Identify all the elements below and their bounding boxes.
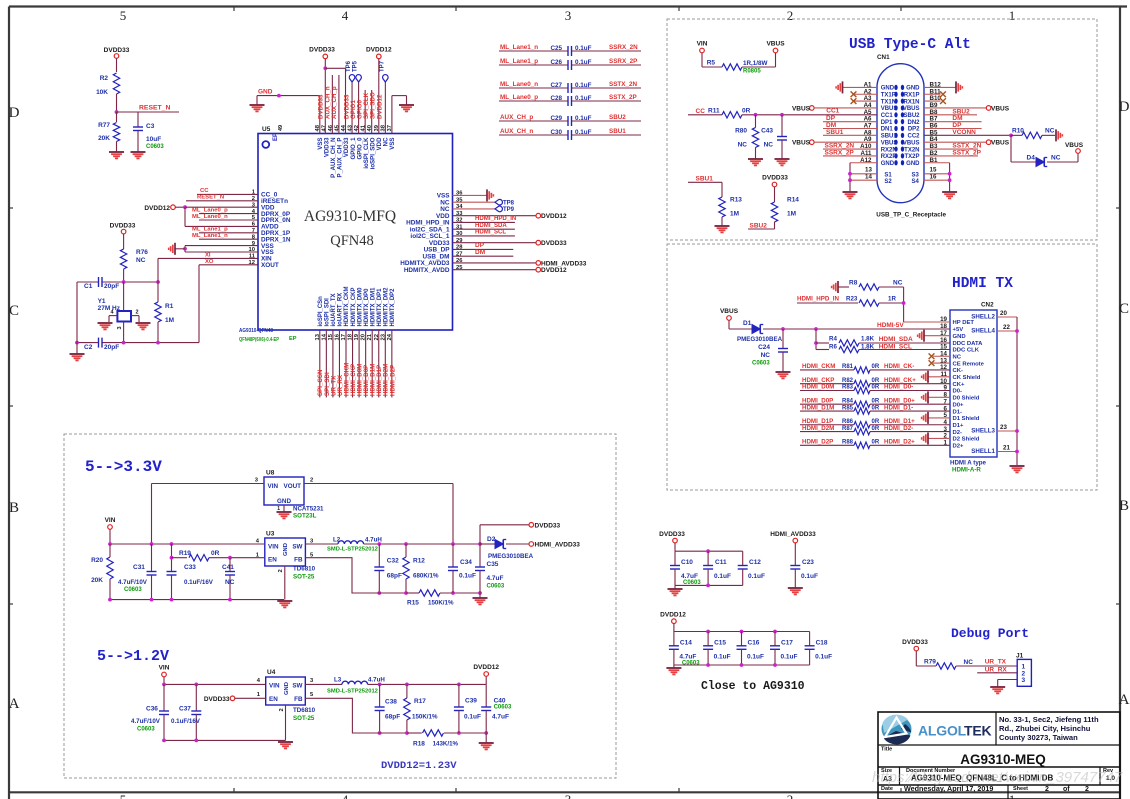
svg-text:FB: FB [294, 696, 303, 703]
svg-text:R80: R80 [735, 128, 747, 135]
svg-text:0.1uF: 0.1uF [815, 654, 832, 661]
svg-text:C16: C16 [748, 640, 760, 647]
svg-text:VIN: VIN [269, 683, 280, 690]
svg-text:SMD-L-STP252012: SMD-L-STP252012 [327, 689, 378, 695]
pin 39 wire DVDD12 [378, 59, 380, 134]
svg-text:VBUS: VBUS [881, 106, 898, 112]
svg-text:R5: R5 [707, 60, 716, 67]
svg-text:RESET_N: RESET_N [197, 195, 224, 201]
pin 24 wire HDMI_D2P [391, 330, 393, 397]
capacitor C27 row [499, 87, 568, 89]
svg-text:143K/1%: 143K/1% [433, 741, 459, 748]
svg-text:ML_Lane0_n: ML_Lane0_n [500, 81, 538, 88]
connector CN1 body [877, 64, 924, 203]
pin 31 wire HDMI_SDA [453, 228, 515, 230]
svg-text:D1 Shield: D1 Shield [953, 416, 980, 422]
svg-text:20K: 20K [91, 577, 103, 584]
U8 pin 2 wire to output [304, 483, 453, 485]
svg-text:SW: SW [292, 683, 302, 690]
svg-text:GND: GND [277, 498, 291, 505]
pin A10 wire SSRX_2N [823, 148, 877, 150]
svg-text:HDMI-A-R: HDMI-A-R [952, 467, 981, 474]
svg-text:ML_Lane1_n: ML_Lane1_n [500, 44, 538, 51]
svg-text:GND: GND [283, 543, 289, 556]
ground (sideways) [955, 81, 957, 93]
capacitor C41 (NC) [229, 558, 231, 572]
pin 23 wire HDMI_D2M [384, 330, 386, 397]
connector CN2 body [950, 310, 997, 457]
svg-text:HDMITX_CKM: HDMITX_CKM [344, 286, 350, 326]
pins 9-10 VSS to ground [185, 245, 258, 247]
regulator U3 body [265, 538, 306, 566]
svg-text:D4: D4 [1027, 155, 1036, 162]
capacitor C2 [98, 338, 100, 348]
svg-text:44: 44 [341, 124, 347, 131]
ground (sideways) [174, 243, 176, 255]
svg-text:DVDD33: DVDD33 [659, 531, 685, 538]
wire to pin 44 [325, 67, 345, 69]
svg-text:1M: 1M [730, 211, 739, 218]
svg-text:CC1: CC1 [826, 108, 839, 115]
svg-text:VBUS: VBUS [903, 140, 920, 146]
pin 5 shield wire to ground [928, 417, 950, 419]
ground [776, 371, 791, 373]
capacitor C17 [774, 632, 776, 646]
wire [123, 234, 125, 249]
svg-text:680K/1%: 680K/1% [413, 573, 439, 580]
svg-text:C0603: C0603 [124, 587, 142, 593]
pin 29 wire to DVDD33 [453, 242, 537, 244]
svg-text:12: 12 [249, 260, 255, 266]
capacitor C28 row [499, 100, 568, 102]
ground [277, 600, 292, 602]
svg-text:45: 45 [334, 124, 340, 131]
pin 4 wire ML_Lane0_p [199, 213, 258, 215]
pin 17 wire HDMI_CKM [345, 330, 347, 397]
pin A12 wire to ground [850, 162, 877, 164]
svg-text:UR_TX: UR_TX [985, 659, 1007, 666]
ground (sideways) [923, 330, 925, 342]
svg-text:TP6: TP6 [346, 60, 352, 72]
svg-text:SBU2: SBU2 [750, 222, 768, 229]
svg-text:0R: 0R [872, 419, 880, 425]
svg-text:TX1N: TX1N [881, 99, 896, 105]
ground [278, 741, 293, 743]
svg-text:HDMI_CK-: HDMI_CK- [884, 363, 914, 370]
svg-text:20K: 20K [98, 135, 110, 142]
svg-text:R15: R15 [407, 600, 419, 607]
connector J1 body [1017, 659, 1031, 686]
wire node C2 row [77, 342, 99, 344]
svg-text:VIN: VIN [105, 517, 116, 524]
svg-text:C12: C12 [749, 559, 761, 566]
svg-text:NC: NC [738, 142, 748, 149]
svg-text:SW: SW [292, 544, 302, 551]
power section dashed box [64, 434, 616, 778]
svg-text:AG9310-QFN48: AG9310-QFN48 [239, 328, 273, 334]
svg-text:HDMITX_AVDD: HDMITX_AVDD [404, 267, 450, 274]
svg-text:QFN48: QFN48 [330, 233, 374, 249]
svg-text:C32: C32 [387, 558, 399, 565]
pin A9 wire to VBUS [810, 140, 815, 145]
pin 34 wire + test point TP9 [453, 208, 496, 210]
pin 40 wire SPI_SDO [371, 90, 373, 134]
svg-text:0.1uF: 0.1uF [464, 714, 481, 721]
svg-text:SHELL2: SHELL2 [971, 314, 995, 321]
power flag VBUS (R5) [773, 48, 778, 53]
svg-text:RX1N: RX1N [903, 99, 919, 105]
svg-text:23: 23 [1000, 424, 1007, 431]
regulator U8 body [264, 477, 304, 505]
svg-text:SBU1: SBU1 [826, 129, 844, 136]
svg-text:R12: R12 [413, 558, 425, 565]
svg-text:D2-: D2- [953, 430, 963, 436]
capacitor C3 [137, 112, 139, 127]
svg-text:1R: 1R [888, 296, 896, 303]
svg-text:HDMI_SCL: HDMI_SCL [879, 343, 912, 350]
svg-text:Sheet: Sheet [1013, 786, 1028, 792]
pin 28 wire DP [453, 248, 514, 250]
svg-text:DVDD33: DVDD33 [762, 175, 788, 182]
svg-text:HDMITX_CKP: HDMITX_CKP [351, 287, 357, 326]
svg-text:DVDD12: DVDD12 [541, 213, 567, 220]
resistor R76 [120, 249, 126, 269]
wire to AVDD [184, 207, 186, 226]
svg-text:TX2N: TX2N [904, 147, 919, 153]
pin 36 wire to ground [453, 194, 488, 196]
svg-text:SBU1: SBU1 [696, 175, 714, 182]
svg-text:VIN: VIN [697, 41, 708, 48]
svg-text:4.7uH: 4.7uH [368, 677, 385, 684]
svg-text:5: 5 [120, 792, 127, 799]
ground [990, 686, 1005, 688]
svg-text:0.1uF: 0.1uF [575, 115, 592, 122]
pin 38 wire + test point TP7 [384, 82, 386, 134]
svg-text:0.1uF: 0.1uF [575, 95, 592, 102]
svg-text:CC2: CC2 [907, 134, 920, 140]
pin 33 wire to DVDD12 [453, 215, 537, 217]
svg-text:11: 11 [249, 254, 256, 260]
svg-text:ioSPI_SDI: ioSPI_SDI [325, 298, 331, 327]
ground [942, 191, 957, 193]
svg-text:VIN: VIN [268, 483, 279, 490]
svg-text:0.1uF: 0.1uF [575, 59, 592, 66]
svg-text:R76: R76 [136, 249, 148, 256]
resistor R80 (NC) [755, 115, 757, 128]
pin A3 wire + no-connect X [853, 100, 878, 102]
svg-text:NC: NC [136, 257, 146, 264]
svg-text:C39: C39 [465, 698, 477, 705]
svg-text:R4: R4 [829, 336, 837, 343]
svg-text:0R: 0R [872, 385, 880, 391]
pin 20 wire HDMI_D0P [365, 330, 367, 397]
pin 47 wire DVDD33 [324, 59, 326, 134]
svg-text:ML_Lane0_p: ML_Lane0_p [500, 94, 538, 101]
svg-text:C: C [1119, 301, 1129, 317]
power flag HDMI_AVDD33 / capacitor C23 [793, 538, 798, 543]
svg-text:3: 3 [565, 8, 572, 23]
svg-text:DVDD33: DVDD33 [541, 240, 567, 247]
svg-text:0.1uF: 0.1uF [748, 573, 765, 580]
svg-text:10K: 10K [96, 89, 108, 96]
svg-text:CK+: CK+ [953, 382, 966, 388]
svg-text:FB: FB [294, 557, 303, 564]
pin 37 wire VSS to ground [391, 96, 393, 134]
svg-text:NC: NC [964, 659, 974, 666]
ground (sideways) [842, 81, 844, 93]
svg-text:ML_Lane1_n: ML_Lane1_n [192, 233, 228, 239]
pin B8 wire SBU2 [924, 114, 977, 116]
svg-text:SBU2: SBU2 [609, 114, 626, 121]
capacitor C11 [707, 551, 709, 565]
svg-text:R86: R86 [842, 419, 854, 425]
power flag DVDD33 (reset divider) [114, 54, 119, 59]
pin 5 wire ML_Lane0_n [199, 219, 258, 221]
svg-text:0.1uF: 0.1uF [459, 573, 476, 580]
resistor R85 row HDMI_D1M [800, 410, 854, 412]
svg-text:Debug Port: Debug Port [951, 626, 1029, 641]
svg-text:0R: 0R [872, 398, 880, 404]
svg-text:C27: C27 [550, 82, 562, 89]
ground [1010, 465, 1025, 467]
svg-text:R87: R87 [842, 426, 854, 432]
svg-text:42: 42 [354, 125, 360, 131]
capacitor C15 [707, 632, 709, 646]
svg-text:R81: R81 [842, 364, 854, 370]
svg-text:Rd., Zhubei City, Hsinchu: Rd., Zhubei City, Hsinchu [999, 724, 1091, 733]
svg-text:DVDD33: DVDD33 [110, 223, 136, 230]
svg-text:RESET_N: RESET_N [139, 105, 170, 112]
svg-text:of: of [1063, 786, 1070, 793]
resistor R1 [157, 282, 159, 302]
wire node C1 row [77, 281, 99, 283]
svg-text:C15: C15 [714, 640, 726, 647]
svg-text:3: 3 [117, 326, 123, 329]
svg-text:HDMI_D2-: HDMI_D2- [884, 425, 913, 432]
svg-text:VBUS: VBUS [991, 105, 1010, 112]
svg-text:NC: NC [225, 579, 235, 586]
ground (sideways) [1055, 129, 1057, 141]
svg-text:2: 2 [1045, 786, 1049, 793]
crystal pin 4 + ground [109, 315, 117, 317]
svg-text:NC: NC [1051, 155, 1061, 162]
input rail wire [164, 683, 266, 685]
pin 11 shield wire to ground [928, 376, 950, 378]
svg-text:C30: C30 [550, 129, 562, 136]
svg-text:C35: C35 [487, 561, 499, 568]
svg-text:4.7uF/10V: 4.7uF/10V [131, 718, 161, 725]
power flag DVDD33 (crystal) [121, 229, 126, 234]
ground [715, 225, 730, 227]
svg-text:R8: R8 [849, 280, 858, 287]
pin 17 GND wire to ground [924, 335, 950, 337]
svg-text:0R: 0R [872, 378, 880, 384]
svg-text:R77: R77 [98, 122, 110, 129]
svg-text:C10: C10 [681, 559, 693, 566]
svg-text:VSS: VSS [389, 138, 396, 150]
pin A8 wire SBU1 [823, 134, 877, 136]
pin A2 wire + no-connect X [853, 93, 878, 95]
svg-text:TX1P: TX1P [881, 92, 896, 98]
svg-text:1M: 1M [787, 211, 796, 218]
svg-text:1.8K: 1.8K [861, 336, 875, 343]
svg-text:R6: R6 [829, 343, 837, 350]
U5 EP marker [262, 141, 269, 148]
pin 43 wire GPIO1 + test point TP6 [351, 82, 353, 134]
svg-text:0.1uF: 0.1uF [801, 573, 818, 580]
svg-text:U4: U4 [267, 669, 276, 676]
pin A6 wire DP [823, 121, 877, 123]
svg-text:L3: L3 [334, 677, 342, 684]
svg-text:VBUS: VBUS [881, 140, 898, 146]
svg-text:41: 41 [361, 124, 367, 131]
capacitor C35 [479, 544, 481, 567]
svg-text:U5: U5 [262, 126, 271, 133]
border frame [9, 5, 1127, 7]
svg-text:A: A [9, 696, 20, 712]
svg-text:D: D [9, 105, 20, 121]
svg-text:2: 2 [136, 310, 139, 316]
svg-text:DVDD12: DVDD12 [366, 47, 392, 54]
ground [109, 151, 124, 153]
svg-text:C28: C28 [550, 95, 562, 102]
svg-text:0.1uF: 0.1uF [747, 654, 764, 661]
svg-text:U3: U3 [266, 531, 275, 538]
capacitor C30 row [499, 134, 568, 136]
pin 27 wire DM [453, 255, 514, 257]
svg-text:0.1uF: 0.1uF [714, 654, 731, 661]
svg-text:SMD-L-STP252012: SMD-L-STP252012 [327, 547, 378, 553]
pin B2 wire SSTX_2P [924, 155, 978, 157]
svg-text:D1-: D1- [953, 409, 963, 415]
pin 2 shield wire to ground [928, 437, 950, 439]
svg-text:SSRX_2P: SSRX_2P [825, 149, 855, 156]
svg-text:4: 4 [342, 8, 349, 23]
capacitor C37 [195, 684, 197, 711]
svg-text:NC: NC [893, 280, 903, 287]
pin 22 wire HDMI_D1P [378, 330, 380, 397]
svg-text:2: 2 [278, 569, 284, 572]
svg-text:DVDD33: DVDD33 [309, 47, 335, 54]
svg-text:4: 4 [342, 792, 349, 799]
resistor R12 [405, 544, 407, 557]
svg-text:C17: C17 [781, 640, 793, 647]
svg-text:D2+: D2+ [953, 444, 965, 450]
svg-text:NC: NC [761, 352, 771, 359]
svg-text:CE Remote: CE Remote [953, 361, 985, 367]
svg-text:DN2: DN2 [907, 120, 920, 126]
svg-text:ML_Lane1_p: ML_Lane1_p [192, 227, 228, 233]
pin B7 wire DM [924, 121, 982, 123]
svg-text:SSRX_2N: SSRX_2N [609, 44, 638, 51]
power flag DVDD12 (top) [377, 54, 382, 59]
pin 48 wire to GND label [319, 96, 321, 134]
ground [668, 588, 683, 590]
svg-text:HDMI_CKM: HDMI_CKM [802, 363, 835, 370]
resistor R17 [406, 684, 408, 698]
svg-text:DP2: DP2 [908, 127, 920, 133]
svg-text:SSTX_2P: SSTX_2P [952, 149, 981, 156]
svg-text:R88: R88 [842, 440, 854, 446]
pin 13 wire SPI_CSN [319, 330, 321, 397]
resistor R87 row HDMI_D2M [800, 431, 854, 433]
svg-text:R82: R82 [842, 378, 854, 384]
svg-text:ioSPI_CSn: ioSPI_CSn [318, 296, 324, 327]
svg-text:DVDD12: DVDD12 [660, 612, 686, 619]
capacitor C24 (NC) [782, 329, 784, 349]
svg-text:TD6810: TD6810 [293, 566, 316, 573]
pin 15 wire UR_TX [332, 330, 334, 397]
svg-text:DVDD33: DVDD33 [535, 522, 561, 529]
svg-text:C40: C40 [494, 698, 506, 705]
svg-text:EP: EP [273, 133, 279, 141]
svg-text:No. 33-1, Sec2, Jiefeng 11th: No. 33-1, Sec2, Jiefeng 11th [999, 715, 1099, 724]
svg-text:County 30273, Taiwan: County 30273, Taiwan [999, 733, 1078, 742]
capacitor C10 [674, 551, 676, 565]
ALGOLTEK logo [882, 716, 912, 743]
svg-text:R84: R84 [842, 398, 854, 404]
svg-text:4.7uF: 4.7uF [681, 573, 698, 580]
svg-text:D0 Shield: D0 Shield [953, 396, 980, 402]
svg-text:TP7: TP7 [379, 60, 385, 72]
svg-text:VBUS: VBUS [792, 105, 811, 112]
pin 14 wire SPI_SDI [325, 330, 327, 397]
capacitor C16 [741, 632, 743, 646]
svg-text:L2: L2 [333, 537, 341, 544]
svg-text:5: 5 [120, 8, 127, 23]
svg-text:CK Shield: CK Shield [953, 375, 981, 381]
svg-text:46: 46 [328, 124, 334, 131]
svg-text:S1: S1 [884, 173, 892, 179]
svg-text:VIN: VIN [159, 665, 170, 672]
svg-text:RX2P: RX2P [881, 154, 897, 160]
svg-text:SSTX_2N: SSTX_2N [609, 81, 637, 88]
svg-text:SHELL4: SHELL4 [971, 328, 995, 335]
svg-text:C1: C1 [84, 283, 93, 290]
svg-text:C23: C23 [802, 559, 814, 566]
svg-text:HDMI_AVDD33: HDMI_AVDD33 [535, 542, 581, 549]
no-connect X pin 13 [933, 362, 950, 364]
pin B6 wire DP [924, 128, 982, 130]
svg-text:SSRX_2P: SSRX_2P [609, 58, 637, 65]
svg-text:RX1P: RX1P [904, 92, 920, 98]
svg-text:GND: GND [906, 161, 920, 167]
resistor R18 [407, 732, 422, 734]
resistor R81 row HDMI_CKM [800, 369, 854, 371]
svg-text:SBU1: SBU1 [609, 128, 626, 135]
svg-text:4.7uF: 4.7uF [492, 714, 509, 721]
ground (sideways) [486, 189, 488, 201]
svg-text:0.1uF: 0.1uF [781, 654, 798, 661]
resistor R5 [701, 53, 703, 67]
svg-text:C2: C2 [84, 344, 93, 351]
svg-text:HDMI-5V: HDMI-5V [877, 322, 904, 329]
capacitor C18 [809, 632, 811, 646]
inductor L3 [305, 683, 342, 685]
capacitor C39 [458, 684, 460, 707]
svg-text:XI: XI [205, 252, 211, 258]
power flag DVDD12 output [485, 676, 487, 684]
U4 ground stem [285, 705, 287, 740]
svg-text:DVDD33: DVDD33 [318, 94, 325, 119]
power flag DVDD33 (cap bank) [673, 538, 678, 543]
svg-text:SOT-25: SOT-25 [293, 574, 315, 581]
svg-text:4.7uF: 4.7uF [487, 575, 504, 582]
svg-text:HDMITX_DP0: HDMITX_DP0 [364, 288, 370, 327]
wire [76, 282, 78, 343]
svg-text:J1: J1 [1016, 653, 1024, 660]
power flag VIN (3.3V) [108, 525, 113, 530]
